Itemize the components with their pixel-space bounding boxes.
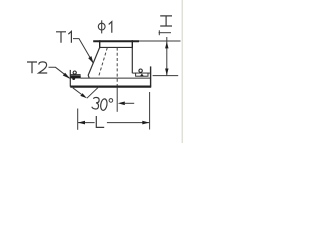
H dimension landing tick: [158, 30, 160, 35]
cap bottom edge: [100, 46, 133, 48]
left weld bar lower blob: [72, 77, 75, 80]
L dim line right segment: [107, 122, 149, 124]
arrowhead T2: [63, 73, 71, 79]
plate right edge: [150, 66, 152, 86]
extension line to H dimension (top): [139, 40, 181, 42]
left weld bar (solid): [71, 75, 81, 78]
label T2: [27, 62, 47, 73]
cap left tick: [99, 40, 101, 48]
degree symbol: [109, 99, 113, 103]
plate top surface left: [70, 74, 80, 76]
L dim right arrow: [142, 121, 149, 125]
H dimension text (rotated H glyph): [160, 16, 172, 26]
angle dim line A: [73, 88, 82, 95]
leader T1: [73, 39, 93, 63]
right weld pad triangle: [140, 74, 144, 77]
L dim left arrow: [78, 121, 85, 125]
right stud circle: [139, 69, 142, 72]
L dim left extension line: [77, 109, 79, 130]
L dim text (hand-drawn L glyph): [96, 116, 104, 127]
angle dim line B: [87, 87, 99, 99]
cap right tick: [131, 40, 133, 48]
leader T2: [49, 67, 70, 78]
plate mid line (spans plate width): [81, 77, 151, 79]
label T1: [56, 31, 71, 42]
nozzle left flare wall: [88, 47, 100, 78]
angle dim arrow C (points left): [118, 102, 125, 106]
angle reference vertical line: [116, 87, 118, 112]
H dimension top arrow: [165, 42, 168, 49]
nozzle right wall: [131, 47, 133, 73]
L dim line left segment: [78, 122, 95, 124]
plate top surface right segment a: [132, 72, 135, 74]
plate bottom thick edge: [70, 85, 151, 87]
left stud circle: [73, 71, 76, 74]
dimension label phi1 : digit 1: [109, 22, 112, 33]
panel divider faint vertical line: [181, 0, 183, 143]
H dimension bottom arrow: [165, 69, 168, 76]
nozzle cap top thick edge with dim arrows: [93, 40, 139, 42]
L dim right extension line: [149, 92, 151, 130]
angle dim arrow (down-right): [80, 93, 87, 98]
H dimension landing line: [159, 32, 171, 34]
angle dim arrow C tail: [124, 102, 134, 104]
hidden bore line right (dashed vertical): [116, 48, 118, 87]
plate top surface right segment b: [148, 72, 150, 74]
H dimension bottom extension line: [153, 75, 179, 77]
H dimension vertical line: [166, 37, 168, 76]
plate left edge: [69, 70, 71, 87]
dimension label phi1 : phi symbol: [98, 20, 105, 33]
hidden bore line left (dashed slant): [99, 48, 108, 76]
angle text 30 (rotated, hand-drawn 3 and 0): [92, 97, 108, 111]
arrowhead T1: [88, 56, 93, 64]
right weld pad rectangle: [136, 73, 148, 76]
